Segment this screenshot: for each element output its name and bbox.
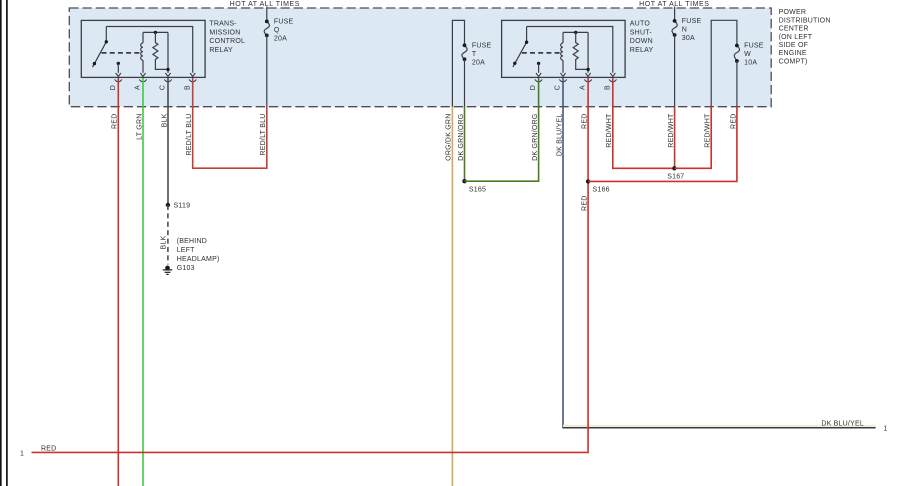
node S165 [462,179,466,183]
svg-text:Q: Q [274,27,280,34]
svg-text:1: 1 [20,450,24,457]
svg-text:RED/WHT: RED/WHT [606,113,613,148]
wire DK GRN/ORG from node S165 to K2 pin D [465,78,539,181]
svg-text:RED/WHT: RED/WHT [668,113,675,148]
svg-text:10A: 10A [744,60,757,67]
relay K1 coil top node wire [143,31,168,33]
svg-text:(BEHIND: (BEHIND [177,238,207,245]
wire RED/LT BLU from K1 pin B to fuse Q [193,78,267,168]
power distribution center box [69,8,771,107]
svg-text:A: A [135,85,142,90]
relay K1 label [209,21,245,54]
relay K1 resistor [153,32,168,69]
fuse T label [472,42,492,66]
svg-text:B: B [604,85,611,90]
svg-text:MISSION: MISSION [209,29,240,36]
svg-text:(ON LEFT: (ON LEFT [779,34,813,41]
svg-text:D: D [110,85,117,90]
relay K2 AUTO SHUT-DOWN RELAY [502,20,625,77]
wire ORG/DK GRN from bottom edge up to fuse T loop [451,107,453,486]
svg-text:D: D [530,85,537,90]
svg-text:CENTER: CENTER [779,26,809,33]
svg-text:20A: 20A [472,60,485,67]
relay K2 top inner wire to pin B [527,27,613,73]
svg-text:S167: S167 [667,173,684,180]
svg-text:S166: S166 [593,187,610,194]
wire BLK dashed from S119 to ground G103 [167,205,169,265]
relay K1 top inner wire to pin B [106,27,192,73]
svg-text:T: T [472,51,477,58]
svg-text:FUSE: FUSE [682,18,702,25]
relay K2 label [630,21,654,54]
svg-text:BLK: BLK [161,235,168,249]
svg-text:FUSE: FUSE [274,18,294,25]
node S166 [586,179,590,183]
wire RED/WHT from node S167 up to fuse W loop [674,107,711,169]
fuse W 10A [734,46,739,61]
node S167 [672,166,676,170]
svg-text:S119: S119 [174,203,191,210]
fuse T 20A [462,45,467,59]
relay K1 pin D stub [117,62,120,65]
svg-text:TRANS-: TRANS- [209,21,237,28]
relay K2 resistor-side wire to pin A [587,32,589,72]
ground G103 location label [177,238,220,272]
fuse W 10A feed loop (black inside PDC) [711,20,737,106]
svg-text:FUSE: FUSE [472,42,492,49]
fuse T 20A feed loop (black inside PDC) [452,20,464,106]
relay K2 armature dashed link [522,52,562,54]
svg-text:FUSE: FUSE [744,43,764,50]
svg-text:CONTROL: CONTROL [209,38,245,45]
svg-text:DK GRN/ORG: DK GRN/ORG [458,114,465,161]
fuse Q 20A [264,7,269,107]
svg-text:C: C [160,85,167,90]
svg-text:C: C [555,85,562,90]
svg-text:RED: RED [582,196,589,211]
svg-text:DK BLU/YEL: DK BLU/YEL [821,420,864,427]
relay K1 resistor-side wire to pin C [167,32,169,72]
relay K2 pin D stub [537,62,540,65]
svg-text:S165: S165 [469,186,486,193]
svg-text:1: 1 [883,426,887,433]
relay K1 internal switch [93,27,107,68]
wire DK BLU/YEL from K2 pin C to right edge [562,78,564,428]
wire RED from K1 pin D to bottom edge [117,78,119,486]
svg-text:SIDE OF: SIDE OF [779,42,809,49]
svg-text:RELAY: RELAY [209,47,233,54]
svg-text:RED/LT BLU: RED/LT BLU [186,114,193,156]
svg-text:POWER: POWER [779,9,807,16]
fuse N label [682,18,702,42]
relay K2 coil top node wire [563,31,588,33]
svg-text:SHUT-: SHUT- [630,29,653,36]
fuse N 30A [672,7,677,107]
svg-text:G103: G103 [177,265,195,272]
svg-text:AUTO: AUTO [630,21,651,28]
svg-text:HEADLAMP): HEADLAMP) [177,256,220,263]
relay K2 pin arrows and connectors [535,73,617,82]
node S119 [166,203,170,207]
svg-text:DK BLU/YEL: DK BLU/YEL [556,114,563,157]
svg-text:HOT AT ALL TIMES: HOT AT ALL TIMES [230,1,300,8]
relay K2 resistor [573,32,588,69]
svg-text:RED/WHT: RED/WHT [705,113,712,148]
svg-text:ENGINE: ENGINE [779,50,807,57]
svg-text:DK GRN/ORG: DK GRN/ORG [532,114,539,161]
svg-text:COMPT): COMPT) [779,58,808,65]
relay K1 pin letters D A C B [110,85,191,90]
relay K2 coil (to pin C) [561,32,563,72]
svg-text:30A: 30A [682,35,695,42]
svg-text:RED/LT BLU: RED/LT BLU [260,114,267,156]
svg-text:LT GRN: LT GRN [136,114,143,140]
wire RED/WHT from fuse N to node S167 [674,106,676,168]
svg-text:20A: 20A [274,36,287,43]
wire BLK from K1 pin C to node S119 [167,78,169,205]
svg-text:B: B [184,85,191,90]
wire RED from K2 pin A through S166 to bottom left exit [32,78,589,452]
svg-text:ORG/DK GRN: ORG/DK GRN [445,114,452,161]
relay K2 internal switch [513,27,527,67]
svg-text:RELAY: RELAY [630,47,654,54]
relay K1 TRANSMISSION CONTROL RELAY [81,20,205,77]
relay K1 armature dashed link [102,52,142,54]
svg-text:RED: RED [730,114,737,129]
relay K1 coil (to pin A) [141,32,143,72]
wire LT GRN from K1 pin A to bottom edge [142,78,144,486]
PDC location label [779,9,831,65]
svg-text:RED: RED [112,114,119,129]
svg-text:N: N [682,27,687,34]
svg-text:BLK: BLK [161,113,168,127]
relay K2 pin letters D C A B [530,85,611,90]
svg-text:W: W [744,51,751,58]
svg-text:DISTRIBUTION: DISTRIBUTION [779,17,831,24]
fuse Q label [274,18,294,42]
ground G103 [163,266,173,275]
svg-text:RED: RED [41,445,56,452]
svg-text:DOWN: DOWN [630,38,653,45]
wire RED from fuse W to node S166 [588,106,737,181]
fuse W label [744,43,764,67]
wire DK GRN/ORG from fuse T to node S165 [464,106,466,181]
svg-text:A: A [580,85,587,90]
svg-text:LEFT: LEFT [177,247,195,254]
relay K1 pin arrows and connectors [115,73,197,82]
wire RED/WHT from K2 pin B to node S167 [613,78,675,168]
svg-text:RED: RED [582,114,589,129]
